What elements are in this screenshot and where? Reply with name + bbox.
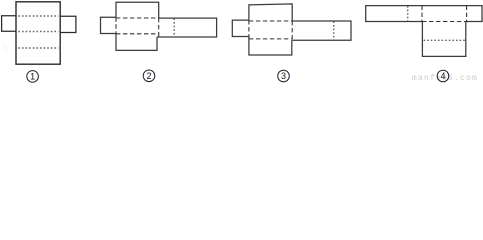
net 3 dashed h fold a bbox=[249, 20, 292, 22]
svg-text:2: 2 bbox=[146, 71, 151, 81]
net 3 dotted v fold bbox=[333, 21, 335, 39]
net 3 tall rect outline bbox=[249, 4, 292, 21]
net 3 tall rect lower outline bbox=[249, 37, 292, 56]
net 1 right tab bbox=[60, 16, 76, 32]
svg-text:Jy: Jy bbox=[2, 43, 9, 52]
net 1 main rectangle bbox=[16, 2, 60, 64]
net 2 dashed h fold b bbox=[116, 33, 159, 35]
net 1 fold line a bbox=[18, 15, 58, 17]
net 1 left tab bbox=[2, 16, 16, 32]
net 3 left tab bbox=[232, 20, 249, 36]
net 1 fold line c bbox=[18, 47, 58, 49]
net 3 long rect bbox=[292, 21, 351, 40]
net 4 long rect top/left/right bbox=[366, 6, 482, 22]
net 3 dashed v fold (long-rect joint) bbox=[291, 21, 293, 40]
label 3 circle bbox=[278, 70, 290, 82]
net 3 tab fold (dashed) bbox=[248, 20, 250, 36]
net 4 bottom fold (dashed) bbox=[422, 21, 466, 23]
net 4 square flap bbox=[422, 22, 465, 57]
net 2 tall rect outline bbox=[116, 2, 159, 18]
net 4 dashed v fold a bbox=[421, 6, 423, 22]
net 2 left tab bbox=[101, 17, 117, 33]
net 1 fold line b bbox=[18, 31, 58, 33]
svg-text:4: 4 bbox=[440, 71, 445, 81]
net 3 dashed h fold b bbox=[249, 38, 292, 40]
net 2 dashed h fold a bbox=[116, 17, 159, 19]
net 4 square dotted fold bbox=[424, 39, 466, 41]
net 2 tall rect lower outline bbox=[116, 34, 157, 51]
svg-text:3: 3 bbox=[281, 71, 286, 81]
net 4 dashed v fold b bbox=[466, 6, 468, 22]
net 2 tab fold (dashed) bbox=[115, 17, 117, 33]
net 2 dotted v fold bbox=[173, 19, 175, 37]
net 2 dashed v fold (long-rect joint) bbox=[158, 18, 160, 37]
svg-text:1: 1 bbox=[30, 72, 35, 82]
label 4 circle bbox=[437, 70, 449, 82]
label 2 circle bbox=[143, 70, 155, 82]
net 4 dotted v fold bbox=[407, 6, 409, 21]
label 1 circle bbox=[27, 71, 39, 83]
net 2 long rect bbox=[157, 18, 217, 37]
